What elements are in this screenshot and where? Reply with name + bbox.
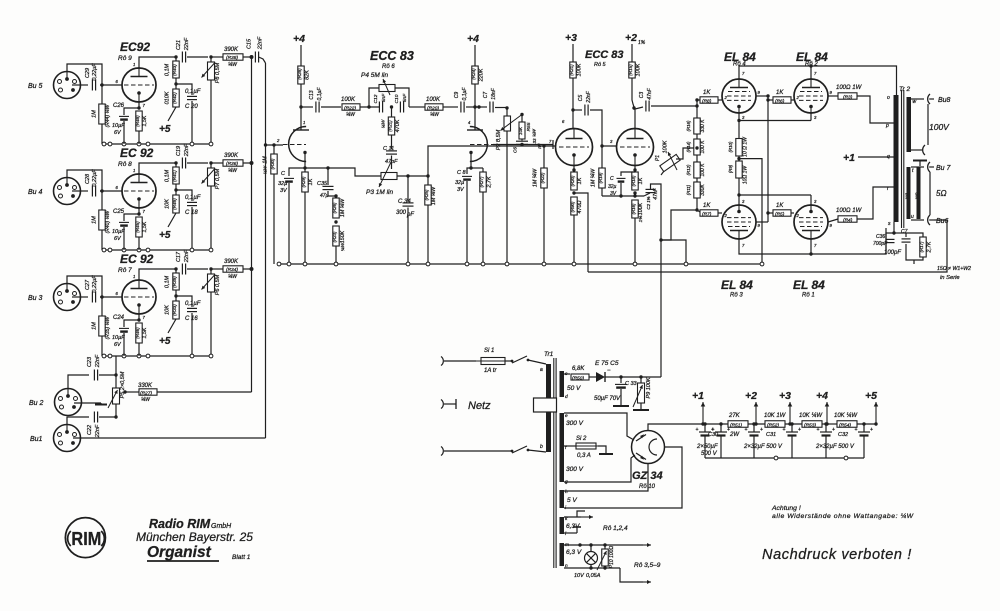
svg-text:(R12): (R12) bbox=[686, 164, 691, 175]
plug mains middle bbox=[441, 400, 443, 409]
resistor 150K 1/4W divider bbox=[333, 226, 339, 246]
capacitor C 20 0,1uF bbox=[176, 84, 192, 95]
svg-text:100K: 100K bbox=[636, 63, 642, 76]
svg-text:390K: 390K bbox=[224, 259, 239, 265]
wire P1 to grid chain bbox=[676, 148, 697, 159]
potentiometer P5 2x0,5M bbox=[115, 375, 117, 388]
svg-text:Rö 6: Rö 6 bbox=[382, 64, 395, 70]
capacitor C2 47nF feedback bbox=[644, 193, 650, 196]
wire Bu1 to mixing bus bbox=[73, 437, 266, 439]
wire feedback drop bbox=[661, 240, 686, 262]
wire heater 6,3V Roe 1,2,4 bbox=[564, 516, 581, 518]
svg-text:e: e bbox=[565, 414, 568, 419]
potentiometer P10 100 Ohm bbox=[604, 545, 606, 549]
svg-text:Rö 5: Rö 5 bbox=[594, 62, 607, 68]
svg-text:0,1µF: 0,1µF bbox=[185, 89, 201, 95]
wire bbox=[67, 276, 102, 356]
svg-text:(R53): (R53) bbox=[804, 423, 816, 429]
svg-text:(R48): (R48) bbox=[135, 115, 140, 127]
svg-text:+: + bbox=[783, 427, 786, 433]
mains voltage selector on Tr1 bbox=[534, 398, 557, 412]
svg-text:(R39): (R39) bbox=[172, 276, 177, 288]
switch upper bbox=[505, 360, 512, 362]
svg-text:W1: W1 bbox=[905, 192, 910, 199]
triode d ECC83 Roe5 bbox=[617, 129, 654, 166]
svg-text:Rö 1: Rö 1 bbox=[802, 293, 815, 299]
svg-text:+3: +3 bbox=[565, 32, 577, 44]
svg-text:(R52): (R52) bbox=[767, 423, 779, 429]
svg-text:P2 0,5M: P2 0,5M bbox=[496, 129, 502, 150]
svg-text:E 75 C5: E 75 C5 bbox=[595, 360, 619, 367]
svg-text:+: + bbox=[760, 427, 763, 433]
svg-text:C17: C17 bbox=[176, 251, 182, 262]
svg-text:10µF: 10µF bbox=[112, 229, 125, 235]
node +5 feed bbox=[168, 319, 176, 333]
wire anode top pair bbox=[739, 66, 897, 95]
logo RIM bbox=[65, 518, 105, 558]
wire lower heater return bbox=[564, 567, 620, 569]
svg-text:100K: 100K bbox=[577, 63, 583, 76]
wire R4 to transformer tap r bbox=[857, 187, 894, 219]
svg-text:1K: 1K bbox=[776, 203, 784, 209]
svg-text:h: h bbox=[565, 489, 568, 495]
svg-text:(R27): (R27) bbox=[140, 391, 152, 397]
resistor (R36) 390K bbox=[211, 162, 223, 164]
svg-text:C10: C10 bbox=[394, 94, 400, 103]
svg-text:C5: C5 bbox=[578, 95, 584, 102]
svg-text:(R33): (R33) bbox=[172, 304, 177, 316]
svg-text:330 K: 330 K bbox=[700, 119, 706, 133]
svg-text:0,1µF: 0,1µF bbox=[317, 87, 323, 101]
svg-text:(R22): (R22) bbox=[344, 106, 356, 112]
svg-text:EC92: EC92 bbox=[120, 40, 150, 54]
svg-text:EC 92: EC 92 bbox=[120, 146, 154, 160]
capacitor C21 22nF 22nF bbox=[181, 52, 183, 63]
svg-text:(R8): (R8) bbox=[702, 99, 712, 105]
svg-text:1M: 1M bbox=[92, 322, 98, 330]
capacitor C26 10uF 6V bbox=[138, 102, 140, 108]
svg-text:100K: 100K bbox=[663, 140, 669, 153]
wire anode triode a bbox=[300, 84, 302, 130]
svg-text:(R18): (R18) bbox=[631, 175, 636, 186]
svg-text:22nF: 22nF bbox=[586, 90, 592, 103]
svg-text:100K: 100K bbox=[341, 97, 356, 103]
svg-text:(R34): (R34) bbox=[226, 267, 238, 273]
wire P3 left end bbox=[328, 168, 381, 176]
svg-text:1: 1 bbox=[133, 274, 135, 279]
svg-text:Bu8: Bu8 bbox=[938, 97, 951, 104]
wire 5V filament to GZ34 bbox=[564, 464, 648, 492]
capacitor C 16 0,1uF bbox=[176, 296, 192, 307]
svg-text:1: 1 bbox=[133, 168, 135, 173]
svg-text:(R49): (R49) bbox=[172, 198, 177, 210]
wire cathode c to cathode d coupling bbox=[574, 193, 588, 235]
svg-text:390K: 390K bbox=[224, 47, 239, 53]
svg-text:32µ: 32µ bbox=[455, 180, 464, 186]
svg-text:+2: +2 bbox=[745, 390, 757, 402]
ground bbox=[74, 402, 101, 404]
svg-text:700pF: 700pF bbox=[873, 241, 888, 247]
resistor (R40) 1M bbox=[99, 210, 105, 230]
svg-text:¼W: ¼W bbox=[228, 274, 238, 280]
svg-text:GmbH: GmbH bbox=[211, 523, 232, 530]
svg-text:(R26): (R26) bbox=[332, 202, 337, 213]
capacitor C35 47nF + divider bbox=[305, 167, 328, 169]
svg-text:150K: 150K bbox=[340, 230, 346, 243]
resistor (R10) 10 Ohm 1W bbox=[738, 113, 740, 121]
svg-text:(R21): (R21) bbox=[388, 120, 393, 132]
svg-text:0,1M: 0,1M bbox=[165, 275, 171, 288]
capacitor C15 22nF bbox=[254, 52, 256, 63]
svg-text:(R17): (R17) bbox=[919, 241, 924, 252]
wire bbox=[67, 170, 102, 250]
svg-text:(R16): (R16) bbox=[631, 203, 636, 214]
resistor (R34) 390K bbox=[211, 268, 223, 270]
wire cathode d network bus bbox=[602, 195, 644, 197]
node +2 arrow bbox=[748, 423, 765, 425]
wire bbox=[72, 84, 88, 86]
svg-text:Rö 10: Rö 10 bbox=[639, 484, 656, 490]
svg-text:−: − bbox=[607, 368, 611, 374]
wire grid b stopper bbox=[493, 144, 553, 146]
svg-text:Rö 7: Rö 7 bbox=[118, 267, 132, 274]
wire network bottom bbox=[906, 252, 923, 260]
resistor (R21) 470K bbox=[391, 107, 393, 117]
capacitor C12 5nF bbox=[378, 102, 380, 113]
svg-text:300 V: 300 V bbox=[566, 466, 584, 473]
svg-text:P7 0,5M: P7 0,5M bbox=[215, 168, 221, 189]
svg-text:(R51): (R51) bbox=[730, 423, 742, 429]
resistor (R3) 100 Ohm 1W bbox=[828, 95, 838, 97]
svg-text:Si 2: Si 2 bbox=[576, 436, 587, 442]
svg-text:10K 1W: 10K 1W bbox=[764, 413, 787, 419]
wire ground bus of stage bbox=[102, 355, 212, 357]
node +5 arrow bbox=[857, 423, 876, 425]
svg-text:+4: +4 bbox=[293, 33, 305, 45]
svg-text:¼W: ¼W bbox=[346, 112, 356, 118]
svg-text:6,8K: 6,8K bbox=[572, 366, 585, 372]
wire filter cap bus bbox=[705, 457, 864, 459]
svg-text:(R27): (R27) bbox=[479, 176, 484, 187]
terminal Bu8 bbox=[928, 94, 930, 104]
svg-text:1%: 1% bbox=[638, 216, 643, 223]
svg-text:(R28): (R28) bbox=[297, 68, 302, 80]
resistor (R15) 100K bbox=[629, 62, 635, 78]
svg-text:+4: +4 bbox=[816, 390, 828, 402]
svg-text:1,5K: 1,5K bbox=[142, 221, 148, 232]
wire 100V terminal link bbox=[927, 104, 929, 145]
svg-text:(R4): (R4) bbox=[843, 218, 853, 224]
svg-text:Bu 5: Bu 5 bbox=[28, 83, 43, 90]
capacitor C7 100pF bbox=[894, 232, 906, 234]
switch lower bbox=[512, 446, 527, 453]
wire grid c from tone network bbox=[443, 145, 555, 147]
svg-text:C29: C29 bbox=[85, 68, 91, 78]
capacitor C32 2x32uF 500V bbox=[825, 424, 827, 432]
wire grid chain bottom link bbox=[661, 210, 697, 240]
svg-text:P10 100Ω: P10 100Ω bbox=[609, 546, 615, 569]
svg-text:10K: 10K bbox=[165, 305, 171, 315]
svg-text:C32: C32 bbox=[838, 432, 848, 438]
svg-text:(R7): (R7) bbox=[702, 212, 712, 218]
svg-text:+5: +5 bbox=[159, 230, 171, 241]
resistor (R41) 0,1M bbox=[174, 161, 177, 164]
resistor (R33) 10K bbox=[175, 290, 177, 301]
svg-text:500 V: 500 V bbox=[701, 451, 718, 457]
wire to mixing rail bbox=[243, 268, 252, 270]
capacitor electrolytic cathode d bbox=[621, 172, 635, 176]
wire B+ rail bbox=[655, 423, 728, 425]
svg-text:(R42): (R42) bbox=[172, 92, 177, 104]
svg-text:+: + bbox=[798, 427, 801, 433]
svg-text:ECC 83: ECC 83 bbox=[585, 49, 624, 61]
svg-text:22nF: 22nF bbox=[184, 143, 190, 157]
svg-text:1K: 1K bbox=[577, 177, 583, 184]
svg-text:22nF: 22nF bbox=[95, 354, 101, 368]
svg-text:1M ¼W: 1M ¼W bbox=[431, 186, 437, 205]
svg-text:5nF: 5nF bbox=[381, 93, 387, 102]
svg-text:C27: C27 bbox=[85, 279, 91, 290]
svg-text:(R50): (R50) bbox=[572, 376, 584, 382]
svg-text:GZ 34: GZ 34 bbox=[632, 470, 663, 482]
svg-text:C23: C23 bbox=[87, 356, 93, 367]
svg-text:10 Ω 1W: 10 Ω 1W bbox=[743, 136, 749, 157]
ground bbox=[598, 446, 606, 453]
svg-text:C 33: C 33 bbox=[625, 381, 638, 387]
resistor 100K 1% to ground bbox=[632, 200, 638, 218]
svg-text:100V: 100V bbox=[929, 122, 950, 132]
terminal Bu7 bbox=[911, 166, 924, 168]
svg-text:1M: 1M bbox=[263, 156, 269, 164]
resistor (R23) 100K bbox=[570, 62, 576, 78]
resistor (R50) 6,8K bbox=[564, 373, 570, 375]
svg-text:10K: 10K bbox=[165, 199, 171, 209]
svg-text:100K: 100K bbox=[426, 97, 441, 103]
wire Bu7-Bu6 link bbox=[929, 172, 931, 215]
svg-text:Tr 2: Tr 2 bbox=[899, 86, 910, 93]
svg-text:+3: +3 bbox=[779, 390, 791, 402]
svg-text:82K: 82K bbox=[305, 70, 311, 80]
svg-text:(R90): (R90) bbox=[570, 201, 575, 212]
svg-text:+5: +5 bbox=[865, 390, 877, 402]
svg-text:470Ω: 470Ω bbox=[577, 201, 583, 214]
svg-text:0,05A: 0,05A bbox=[586, 573, 601, 579]
svg-text:(R5): (R5) bbox=[775, 212, 785, 218]
wire anode bbox=[139, 57, 176, 68]
triode c ECC83 Roe5 bbox=[556, 129, 593, 166]
wire anode d bbox=[632, 78, 635, 128]
svg-text:2×32µF 500 V: 2×32µF 500 V bbox=[743, 444, 783, 450]
svg-text:1K: 1K bbox=[308, 178, 314, 185]
svg-text:W2: W2 bbox=[915, 192, 920, 199]
capacitor C 33 50uF 70V bbox=[620, 377, 622, 383]
plug mains upper bbox=[441, 357, 443, 366]
svg-text:Netz: Netz bbox=[468, 400, 491, 412]
svg-text:100pF: 100pF bbox=[884, 250, 901, 256]
svg-text:C7: C7 bbox=[901, 229, 908, 235]
wire ground bus of stage bbox=[102, 143, 212, 145]
svg-text:5nF: 5nF bbox=[402, 93, 408, 102]
svg-text:Rö 3,5–9: Rö 3,5–9 bbox=[634, 562, 661, 569]
svg-text:330K: 330K bbox=[138, 383, 153, 389]
svg-text:2,7K: 2,7K bbox=[927, 241, 933, 253]
node +1 arrow bbox=[702, 402, 704, 424]
svg-text:(R15): (R15) bbox=[628, 64, 633, 76]
svg-text:1,5K: 1,5K bbox=[142, 327, 148, 338]
resistor (R17) 2,7K bbox=[906, 233, 923, 237]
svg-text:(R43): (R43) bbox=[172, 64, 177, 76]
svg-text:b: b bbox=[540, 444, 543, 450]
svg-text:1,5K: 1,5K bbox=[142, 115, 148, 126]
svg-text:¼W: ¼W bbox=[430, 112, 440, 118]
resistor (R9) 10 Ohm 1W bbox=[737, 157, 740, 160]
svg-text:1M ¼W: 1M ¼W bbox=[533, 168, 539, 187]
svg-text:(R24): (R24) bbox=[471, 68, 476, 80]
wire to mixing rail bbox=[243, 162, 252, 164]
svg-text:(R25): (R25) bbox=[424, 189, 429, 200]
potentiometer P3 1M lin bbox=[391, 156, 393, 170]
svg-text:Bu 3: Bu 3 bbox=[28, 295, 43, 302]
resistor (R22) 100K bbox=[342, 104, 360, 110]
cathode c resistor (R20) 1K bbox=[573, 166, 575, 171]
svg-text:RIM: RIM bbox=[71, 528, 101, 549]
svg-text:Radio RIM: Radio RIM bbox=[149, 517, 211, 531]
svg-text:330K: 330K bbox=[700, 184, 706, 196]
svg-text:Achtung !: Achtung ! bbox=[771, 505, 801, 512]
triode b of ECC83 Roe6 bbox=[470, 127, 488, 162]
node +4 arrow bbox=[822, 423, 837, 425]
capacitor C31 2x32uF 500V bbox=[753, 424, 755, 432]
svg-text:0,1M: 0,1M bbox=[165, 169, 171, 182]
svg-text:(R45): (R45) bbox=[135, 221, 140, 233]
svg-text:P1: P1 bbox=[655, 155, 661, 161]
capacitor C5 22nF bbox=[573, 109, 582, 111]
svg-text:¼W: ¼W bbox=[381, 119, 387, 128]
svg-text:Rö 3: Rö 3 bbox=[730, 293, 743, 299]
resistor (R49) 10K bbox=[175, 184, 177, 195]
resistor (R11) 330K bbox=[696, 178, 698, 182]
wire screen bus bbox=[768, 99, 773, 101]
svg-text:+: + bbox=[832, 427, 835, 433]
resistor (R45) 1,5K bbox=[136, 217, 142, 237]
svg-text:(R40) ¼W: (R40) ¼W bbox=[105, 209, 111, 233]
lamp 10V 0,05A bbox=[590, 545, 592, 552]
svg-text:Bu 4: Bu 4 bbox=[28, 189, 43, 196]
svg-text:10V: 10V bbox=[574, 573, 585, 579]
svg-text:C19: C19 bbox=[176, 146, 182, 156]
svg-text:15Ω ≠ W1+W2: 15Ω ≠ W1+W2 bbox=[937, 266, 971, 272]
svg-text:(R44) ¼W: (R44) ¼W bbox=[105, 103, 111, 127]
potentiometer P7 0,5M 0,5M bbox=[209, 161, 212, 164]
svg-text:(R9): (R9) bbox=[728, 164, 733, 173]
svg-text:1K: 1K bbox=[638, 177, 644, 184]
svg-text:+: + bbox=[855, 427, 858, 433]
svg-text:10K ¼W: 10K ¼W bbox=[799, 413, 823, 419]
svg-text:1M: 1M bbox=[92, 216, 98, 224]
wire tone network return bbox=[397, 175, 428, 177]
resistor (R43) 0,1M bbox=[174, 55, 177, 58]
svg-text:C25: C25 bbox=[113, 209, 125, 215]
resistor (R44) 1M bbox=[99, 104, 105, 124]
svg-text:(R54): (R54) bbox=[839, 423, 851, 429]
svg-text:2W: 2W bbox=[729, 432, 740, 438]
capacitor C23 22nF bbox=[93, 370, 95, 381]
svg-text:10µF: 10µF bbox=[112, 123, 125, 129]
potentiometer P9 100K bbox=[621, 376, 661, 378]
resistor R55 10K bbox=[520, 113, 523, 116]
wire C5 to grid d bbox=[590, 110, 616, 146]
svg-text:pF: pF bbox=[406, 212, 414, 218]
svg-text:47nF: 47nF bbox=[653, 187, 659, 199]
svg-text:(R10): (R10) bbox=[728, 141, 733, 152]
svg-text:EL 84: EL 84 bbox=[721, 278, 753, 292]
svg-text:(R14): (R14) bbox=[686, 141, 691, 152]
svg-text:+5: +5 bbox=[159, 124, 171, 135]
resistor (R38) 390K bbox=[211, 56, 223, 58]
resistor chain (R16) 330K bbox=[696, 100, 698, 118]
svg-text:Bu 7: Bu 7 bbox=[936, 165, 952, 172]
svg-text:32µ: 32µ bbox=[608, 184, 617, 190]
resistor 1M 1/4W divider bbox=[333, 198, 339, 218]
wire GZ34 cathode to +1 rail bbox=[648, 424, 655, 431]
resistor (R27) 330K bbox=[125, 391, 139, 393]
wire R3 to transformer tap p bbox=[857, 96, 894, 123]
resistor (R24) 220K bbox=[472, 66, 478, 84]
resistor (R30) 1M grid leak bbox=[272, 143, 275, 146]
resistor (R42) 10K bbox=[175, 78, 177, 89]
node +5 feed bbox=[168, 107, 176, 121]
cathode network triode a: C 32uF 3V bbox=[303, 166, 306, 169]
resistor (R14) 100K bbox=[696, 134, 698, 139]
svg-text:5Ω: 5Ω bbox=[936, 189, 947, 198]
svg-text:0,22µF: 0,22µF bbox=[92, 63, 98, 81]
cathode b network C8 32uF bbox=[469, 166, 472, 169]
svg-text:(R20): (R20) bbox=[570, 175, 575, 186]
svg-text:300 V: 300 V bbox=[566, 420, 584, 427]
wire secondary 100V bbox=[911, 98, 924, 100]
svg-text:(R11): (R11) bbox=[686, 184, 691, 195]
svg-text:1K: 1K bbox=[776, 90, 784, 96]
wire plate g to GZ34 bbox=[564, 455, 635, 482]
svg-text:Si 1: Si 1 bbox=[484, 348, 494, 354]
wire main ground bus bbox=[277, 263, 763, 265]
svg-text:C28: C28 bbox=[85, 173, 91, 184]
svg-text:C30: C30 bbox=[708, 432, 719, 438]
svg-text:(R22): (R22) bbox=[540, 172, 545, 183]
svg-text:C21: C21 bbox=[176, 40, 182, 50]
svg-text:Rö 1,2,4: Rö 1,2,4 bbox=[603, 525, 628, 532]
svg-text:C12: C12 bbox=[373, 94, 379, 103]
svg-text:+5: +5 bbox=[159, 336, 171, 347]
resistor (R48) 1,5K bbox=[136, 111, 142, 131]
wire plate e to GZ34 bbox=[564, 413, 634, 440]
svg-text:0,1M: 0,1M bbox=[165, 63, 171, 76]
node +5 feed bbox=[168, 213, 176, 227]
resistor (R25) 1M bbox=[427, 176, 429, 185]
capacitor C7 18nF bbox=[475, 106, 487, 108]
svg-text:Bu 2: Bu 2 bbox=[29, 400, 44, 407]
svg-text:(R46): (R46) bbox=[135, 327, 140, 339]
wire anode bbox=[139, 269, 176, 280]
svg-text:100 K: 100 K bbox=[700, 140, 706, 154]
wire bbox=[72, 190, 88, 192]
capacitor C30 2x50uF 500V bbox=[704, 424, 706, 432]
svg-text:33: 33 bbox=[532, 138, 537, 143]
svg-text:+: + bbox=[727, 427, 730, 433]
svg-text:(R21): (R21) bbox=[569, 64, 574, 76]
svg-text:Organist: Organist bbox=[147, 544, 212, 561]
svg-text:Tr1: Tr1 bbox=[544, 351, 554, 358]
